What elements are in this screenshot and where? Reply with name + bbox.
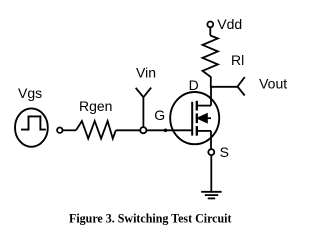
wire terminal to Rgen: [63, 129, 76, 131]
svg-text:Rgen: Rgen: [79, 98, 112, 114]
terminal Vdd: [207, 22, 213, 28]
wire Rl to node D: [210, 77, 212, 88]
transistor Q1 channel segment middle: [196, 113, 198, 123]
transistor Q1 channel segment top: [196, 101, 198, 111]
svg-text:Vout: Vout: [259, 76, 287, 92]
resistor Rl: [203, 36, 218, 78]
wire Rgen to node G: [116, 129, 140, 131]
svg-text:Vdd: Vdd: [217, 16, 242, 32]
svg-text:Vgs: Vgs: [18, 85, 42, 101]
wire Vdd to Rl: [209, 27, 211, 35]
terminal Vout: [238, 77, 245, 95]
svg-text:G: G: [154, 107, 165, 123]
wire S to ground: [210, 155, 212, 191]
resistor Rgen: [76, 121, 116, 139]
wire drain vertical: [210, 87, 212, 106]
source tap: [197, 130, 211, 132]
node G (open circle): [140, 127, 146, 133]
wire node G to gate: [146, 129, 192, 131]
body arrow: [197, 114, 207, 123]
svg-text:Vin: Vin: [136, 64, 156, 80]
pulse source V1: [15, 108, 48, 146]
node S (open circle): [208, 149, 214, 155]
svg-text:S: S: [220, 144, 229, 160]
terminal Vin: [136, 88, 152, 98]
wire node D to Vout: [210, 86, 237, 88]
transistor Q1 channel segment bottom: [196, 126, 198, 136]
wire Vin stem: [142, 97, 144, 127]
wire source vertical: [210, 131, 212, 149]
junction dot: [164, 129, 168, 133]
svg-text:Rl: Rl: [231, 52, 244, 68]
transistor Q1 body circle: [170, 92, 219, 144]
svg-text:Figure 3. Switching Test Circu: Figure 3. Switching Test Circuit: [69, 210, 232, 225]
svg-text:D: D: [189, 77, 199, 93]
pulse waveform symbol: [21, 116, 46, 129]
drain tap: [197, 105, 211, 107]
ground: [201, 191, 221, 193]
transistor Q1 gate bar: [191, 102, 193, 136]
terminal node (source output): [57, 128, 62, 133]
